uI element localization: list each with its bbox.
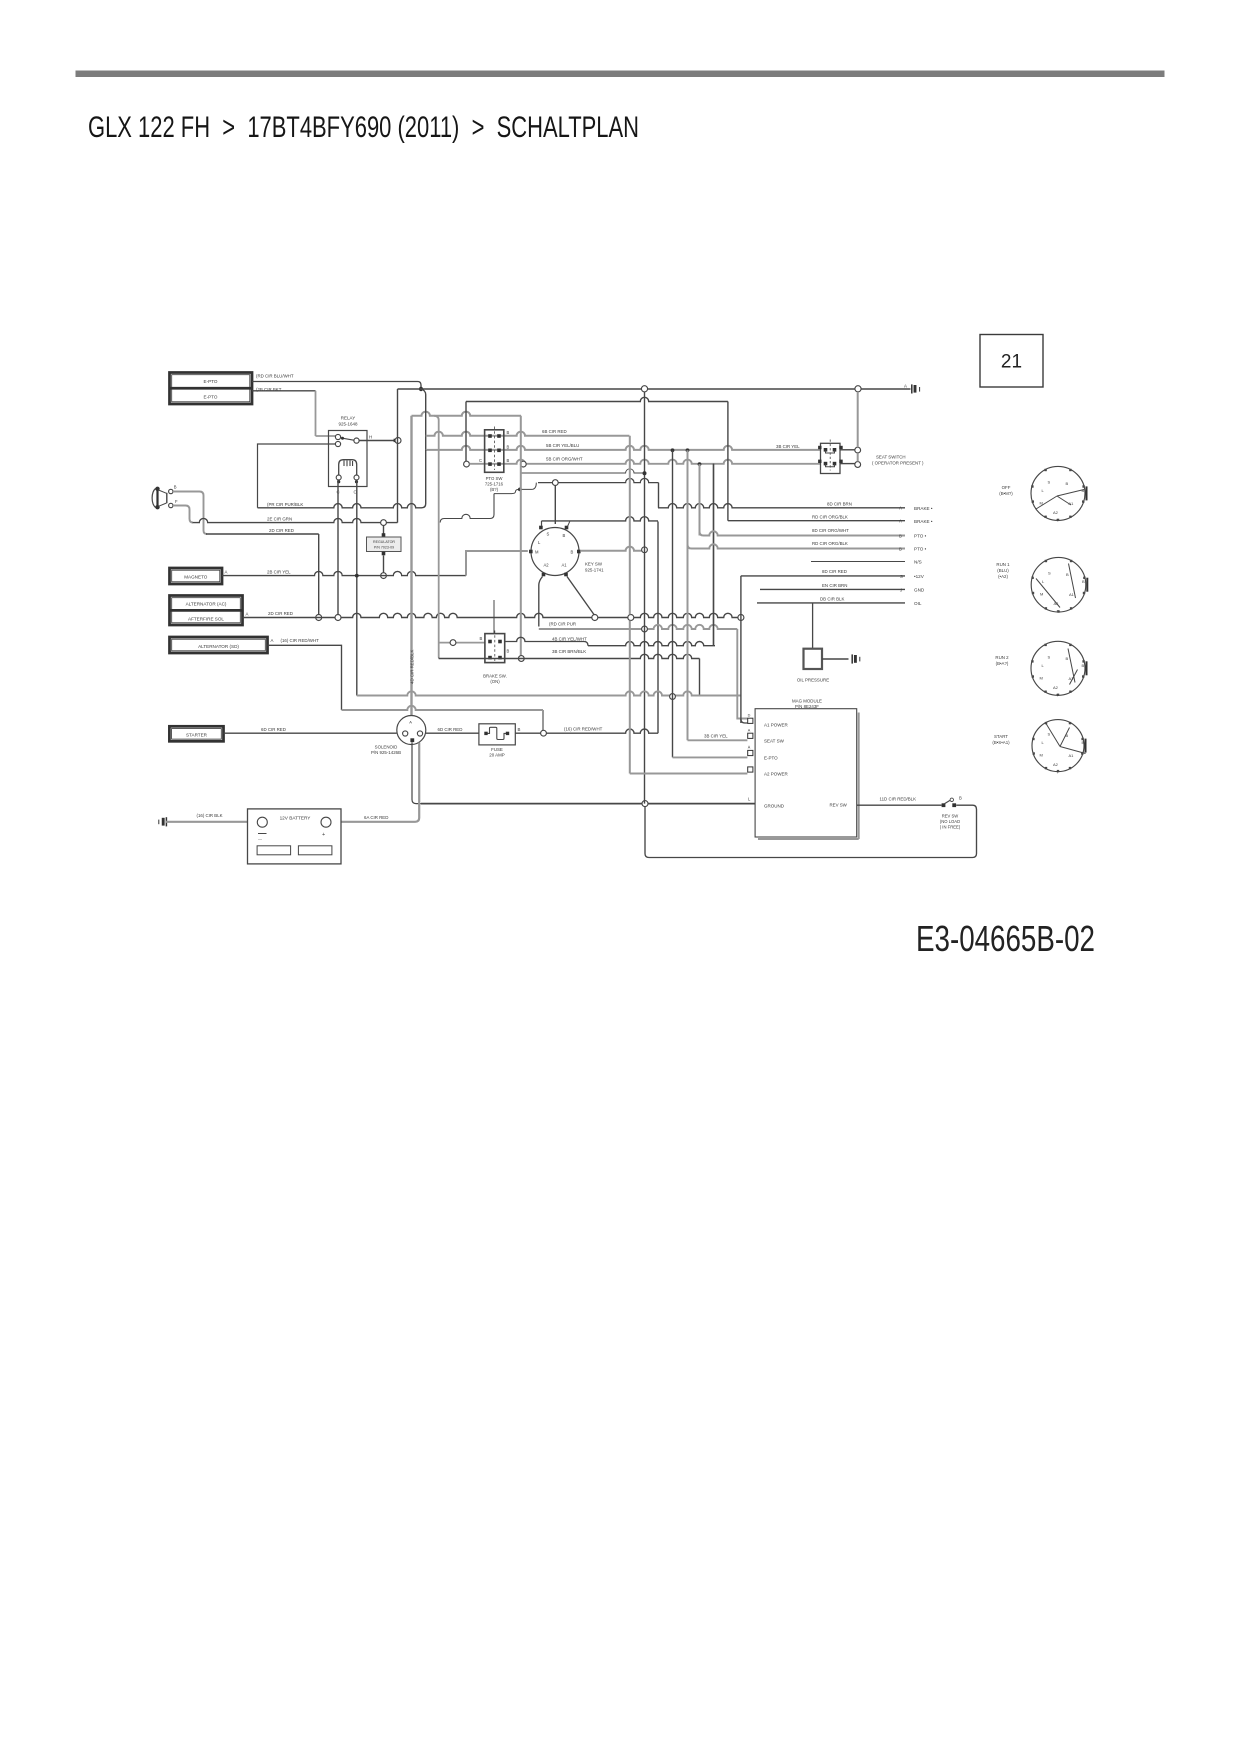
svg-text:RUN 2: RUN 2 — [995, 655, 1009, 660]
relay pin 30 circle — [335, 434, 340, 439]
svg-text:REGULATOR: REGULATOR — [373, 540, 395, 544]
svg-text:(RD CIR BLU/WHT: (RD CIR BLU/WHT — [256, 374, 294, 379]
wire relay coil feed gray — [316, 435, 337, 437]
svg-text:B: B — [959, 796, 962, 801]
svg-text:REV SW: REV SW — [830, 803, 848, 808]
svg-text:RD CIR ORG/BLK: RD CIR ORG/BLK — [812, 514, 848, 519]
junction dot seat/sw1 — [671, 448, 675, 452]
wire top bus y389 — [398, 388, 911, 390]
svg-text:6B CIR RED: 6B CIR RED — [542, 429, 567, 434]
seat switch box — [821, 443, 841, 473]
gauge RUN2 — [1031, 641, 1085, 695]
seat pins — [824, 448, 828, 452]
connector circle coil1/afterfire — [335, 615, 341, 621]
wire battery negative gray — [166, 821, 258, 823]
svg-text:(B?): (B?) — [490, 487, 499, 492]
connector circle key B 644.5 — [642, 547, 648, 553]
brake switch dashed line — [494, 631, 496, 662]
wire seat right top — [840, 449, 855, 451]
svg-text:M: M — [535, 550, 539, 555]
wire key L pin stub — [541, 521, 543, 526]
svg-text:AFTERFIRE SOL: AFTERFIRE SOL — [188, 617, 224, 622]
relay common circle — [354, 438, 359, 443]
wire gray v687.5 — [687, 450, 689, 740]
wire v672.5 — [672, 450, 674, 757]
wire start row left y507.8 — [258, 504, 422, 508]
svg-text:KEY SW: KEY SW — [585, 562, 603, 567]
svg-text:GROUND: GROUND — [764, 803, 785, 808]
key pin top-right — [565, 526, 569, 530]
svg-text:B: B — [563, 533, 566, 538]
regulator top pin — [382, 533, 386, 537]
svg-text:2D CIR RED: 2D CIR RED — [268, 611, 293, 616]
relay coil pin2 circle — [354, 475, 359, 480]
svg-text:P/N 925-1426B: P/N 925-1426B — [371, 750, 401, 755]
svg-text:4D CIR RED/BLK: 4D CIR RED/BLK — [410, 650, 415, 684]
seat switch dashed line — [829, 440, 831, 471]
connector circle regulator top — [381, 520, 387, 526]
gauge OFF — [1031, 466, 1085, 520]
connector circle regulator bottom — [381, 573, 387, 579]
svg-text:S: S — [900, 574, 903, 579]
svg-text:E-PTO: E-PTO — [204, 379, 218, 384]
svg-text:OFF: OFF — [1002, 485, 1011, 490]
svg-text:5B CIR YEL/BLU: 5B CIR YEL/BLU — [546, 443, 579, 448]
junction dot seat/sw2 — [686, 448, 690, 452]
svg-text:—: — — [258, 836, 262, 841]
regulator bottom wire — [383, 556, 385, 573]
svg-text:B: B — [507, 458, 510, 463]
horn pin F circle — [169, 503, 173, 507]
svg-text:OIL: OIL — [914, 601, 922, 606]
svg-text:(NO LOAD: (NO LOAD — [940, 819, 960, 824]
brake switch box — [485, 634, 505, 663]
wire module EPTO entry — [673, 756, 748, 758]
svg-text:A2: A2 — [1053, 510, 1059, 515]
relay output wire — [359, 440, 394, 442]
svg-text:P/N 7023-09: P/N 7023-09 — [374, 546, 394, 550]
module pin D — [748, 718, 753, 723]
wire key M gray — [466, 551, 528, 576]
svg-text:D: D — [748, 714, 751, 718]
wire v858 gray — [857, 392, 859, 447]
regulator bottom pin — [382, 552, 386, 556]
svg-text:B: B — [1082, 663, 1085, 668]
svg-text:J: J — [900, 587, 902, 592]
svg-text:EN CIR BRN: EN CIR BRN — [822, 583, 847, 588]
oil connector glyph — [851, 654, 853, 663]
wire E-PTO pin2 vertical gray — [315, 391, 317, 436]
connector A glyph — [911, 384, 913, 393]
junction circle 467/464.6 — [464, 461, 470, 467]
battery negative connector glyph — [165, 817, 167, 826]
junction dot 520/489.4 — [518, 488, 522, 492]
svg-text:A1: A1 — [1069, 753, 1075, 758]
wire horn B to red net — [173, 492, 207, 535]
svg-text:C: C — [479, 458, 482, 463]
relay output connector circle — [395, 438, 401, 444]
row2 wire — [728, 520, 905, 522]
svg-text:DB CIR BLK: DB CIR BLK — [820, 596, 844, 601]
svg-text:ALTERNATOR (SD): ALTERNATOR (SD) — [198, 644, 239, 649]
key switch circle — [531, 528, 579, 576]
svg-text:21: 21 — [1001, 352, 1022, 373]
connector circle at 644.5/389 — [641, 386, 647, 392]
svg-text:(ON): (ON) — [490, 679, 500, 684]
battery box — [248, 809, 342, 864]
solenoid right pin — [417, 731, 422, 736]
svg-text:BRAKE •: BRAKE • — [914, 506, 933, 511]
wire E-PTO pin2 BKT — [252, 390, 316, 392]
svg-text:(16) CIR RED/WHT: (16) CIR RED/WHT — [281, 638, 320, 643]
wire v740.9 — [740, 576, 742, 723]
wire key B gray — [581, 547, 642, 551]
component box STARTER — [169, 726, 223, 741]
connector circle 644.5/629 — [642, 626, 648, 632]
svg-text:GND: GND — [914, 588, 925, 593]
component box MAGNETO — [170, 568, 223, 584]
svg-text:Ä: Ä — [748, 746, 751, 750]
svg-text:PTO •: PTO • — [914, 547, 927, 552]
svg-text:3B CIR YEL: 3B CIR YEL — [704, 733, 728, 738]
rev switch pin 2 — [952, 803, 956, 807]
wire pto yel/blu gray y450.3 — [426, 446, 821, 450]
svg-text:OIL PRESSURE: OIL PRESSURE — [797, 678, 829, 683]
svg-text:E-PTO: E-PTO — [204, 395, 218, 400]
svg-text:+: + — [322, 832, 325, 838]
junction dot yel/relay-coil — [355, 574, 359, 578]
wire module A2 entry — [630, 773, 748, 775]
wire solenoid to fuse — [426, 732, 480, 734]
module box — [755, 709, 857, 837]
svg-text:A: A — [271, 638, 274, 643]
solenoid left pin — [403, 731, 408, 736]
row4 wire gray — [688, 545, 692, 549]
svg-text:A: A — [899, 506, 902, 511]
svg-text:MAGNETO: MAGNETO — [184, 575, 208, 580]
top horizontal rule — [76, 71, 1165, 78]
wire green y522.6 — [193, 518, 398, 522]
svg-text:RUN 1: RUN 1 — [996, 562, 1010, 567]
wire seat bottom vertical x715 — [713, 464, 715, 646]
svg-text:B: B — [174, 485, 177, 490]
PTO switch box — [485, 430, 504, 473]
rev switch blade — [944, 800, 951, 804]
svg-text:B: B — [571, 550, 574, 555]
connector box E-PTO (2 rows) — [170, 373, 253, 405]
key pin bottom-right — [564, 573, 568, 577]
key pin bottom-left — [542, 573, 546, 577]
battery cell rect 1 — [257, 846, 291, 855]
svg-text:B: B — [507, 649, 510, 654]
svg-text:6D CIR RED: 6D CIR RED — [261, 727, 286, 732]
wire horn red vertical x318.7 — [318, 534, 320, 615]
wire horn red y534 — [206, 533, 319, 535]
svg-text:B: B — [1066, 656, 1069, 661]
wire brake interlock jog — [494, 483, 536, 494]
component box ALTERNATOR (SD) — [170, 637, 268, 653]
svg-text:925-1648: 925-1648 — [338, 422, 358, 427]
wire brn/blk corner — [439, 658, 440, 659]
junction circle ground 645 — [642, 801, 648, 807]
junction circle key A1 diag — [592, 615, 598, 621]
connector circle 555/482.6 — [552, 480, 558, 486]
svg-text:B: B — [480, 636, 483, 641]
svg-text:GLX 122 FH > 17BT4BFY690 (20: GLX 122 FH > 17BT4BFY690 (2011) > SCHALT… — [88, 111, 639, 144]
svg-text:8D CIR BRN: 8D CIR BRN — [827, 502, 852, 507]
svg-text:A2: A2 — [544, 563, 550, 568]
svg-text:REV SW: REV SW — [942, 814, 959, 819]
svg-text:(BLU): (BLU) — [997, 568, 1009, 573]
relay coil hatches — [344, 461, 353, 467]
rev switch pin 1 — [942, 803, 946, 807]
wire relay85 loop — [258, 444, 337, 508]
connector circle 858/450.1 — [855, 447, 861, 453]
svg-text:A2 POWER: A2 POWER — [764, 771, 789, 776]
svg-text:(•A2): (•A2) — [998, 574, 1008, 579]
svg-text:BRAKE SW.: BRAKE SW. — [483, 674, 507, 679]
wire ground loop — [645, 805, 977, 857]
row3 wire gray — [700, 532, 704, 536]
battery pos terminal circle — [321, 817, 331, 827]
wire battery positive gray — [331, 743, 419, 822]
solenoid circle — [397, 716, 426, 745]
svg-text:A1 POWER: A1 POWER — [764, 723, 789, 728]
svg-text:(B•S•A1): (B•S•A1) — [992, 740, 1010, 745]
oil switch box — [804, 649, 823, 669]
svg-text:RD CIR ORG/BLK: RD CIR ORG/BLK — [812, 541, 848, 546]
wire brnblk down x699.5 — [699, 659, 701, 697]
wire v727.9 — [727, 402, 729, 521]
PTO pins row1 — [488, 434, 492, 438]
wire brake to seat y641.5 — [505, 637, 588, 645]
svg-text:8D CIR RED: 8D CIR RED — [822, 569, 847, 574]
wire brake row1 gray — [439, 642, 485, 644]
regulator feed top — [383, 526, 385, 535]
figure number box 21 — [980, 335, 1043, 388]
relay pin 85 circle — [335, 441, 340, 446]
svg-text:M: M — [1040, 675, 1043, 680]
PTO pins row2 — [488, 449, 492, 453]
svg-text:BRAKE •: BRAKE • — [914, 519, 933, 524]
svg-text:S: S — [547, 532, 550, 537]
wire brake row2 brn/blk — [439, 654, 700, 658]
svg-text:6D CIR RED: 6D CIR RED — [438, 727, 463, 732]
connector circle fuse net — [541, 730, 547, 736]
seat edge pins — [818, 446, 821, 449]
wire brake feed gray x438.7 — [434, 416, 439, 658]
svg-text:4B CIR YEL/WHT: 4B CIR YEL/WHT — [552, 636, 587, 641]
wire v466 — [465, 402, 467, 462]
seat contact arc bottom — [826, 464, 835, 467]
horn pin B circle — [169, 489, 173, 493]
svg-text:(RD CIR PUR: (RD CIR PUR — [549, 622, 576, 627]
wire v858b gray — [857, 453, 859, 461]
wire key L vertical x658 — [657, 522, 659, 734]
wire key S feed y482.6 — [538, 478, 659, 482]
wire bus x644.5 — [644, 392, 646, 804]
wire A2 module entry — [737, 629, 747, 719]
wire module A1 entry — [741, 719, 748, 723]
svg-text:S: S — [1048, 571, 1051, 576]
svg-text:PTO SW: PTO SW — [486, 476, 504, 481]
key pin right — [577, 550, 581, 554]
battery cell rect 2 — [298, 846, 332, 855]
svg-text:FUSE: FUSE — [491, 747, 503, 752]
svg-text:A: A — [899, 519, 902, 524]
svg-text:B: B — [1066, 481, 1069, 486]
wire pto red gray y435.8 — [426, 432, 630, 436]
svg-text:S: S — [1048, 654, 1051, 659]
fuse element — [484, 732, 487, 735]
wire start row right y507.8 — [658, 504, 905, 508]
row7 wire — [760, 588, 905, 590]
svg-text:SOLENOID: SOLENOID — [375, 745, 398, 750]
module pin E — [748, 750, 753, 755]
wire seat right bottom — [840, 463, 855, 465]
svg-text:MAG MODULE: MAG MODULE — [792, 699, 822, 704]
svg-text:11D CIR RED/BLK: 11D CIR RED/BLK — [880, 796, 917, 801]
row6 wire — [741, 575, 905, 577]
wire fuse net to key L corner — [546, 729, 658, 733]
wire v713.5 upper — [713, 464, 715, 646]
wire green vertical to relay — [397, 389, 399, 523]
svg-text:12V BATTERY: 12V BATTERY — [280, 815, 312, 820]
svg-text:N/S: N/S — [914, 560, 922, 565]
svg-text:M: M — [1040, 753, 1043, 758]
relay coil arch — [339, 460, 357, 475]
svg-text:A2: A2 — [1053, 685, 1059, 690]
fuse box — [479, 724, 515, 745]
wire relay coil2 down — [356, 480, 358, 696]
regulator box — [367, 537, 402, 552]
module box shadow — [758, 713, 859, 840]
svg-text:5B CIR ORG/WHT: 5B CIR ORG/WHT — [546, 457, 583, 462]
svg-text:B: B — [507, 430, 510, 435]
wire solenoid top gray — [410, 416, 412, 716]
svg-text:(B•M?): (B•M?) — [999, 491, 1013, 496]
battery neg mark — [258, 833, 267, 835]
svg-text:S: S — [1048, 479, 1051, 484]
key pin left — [529, 550, 533, 554]
wire module SEAT entry — [688, 739, 748, 741]
wire gray v629.8 — [629, 436, 631, 615]
connector circle 672.5/696.5 — [670, 694, 676, 700]
svg-text:A1: A1 — [1069, 592, 1075, 597]
svg-text:20 AMP: 20 AMP — [489, 753, 504, 758]
wire key A1 diagonal — [567, 577, 594, 616]
svg-text:SEAT SWITCH: SEAT SWITCH — [876, 455, 906, 460]
wire key S vertical — [554, 486, 556, 525]
connector circle at 858/389 — [855, 386, 861, 392]
svg-text:B: B — [899, 546, 902, 551]
svg-text:B: B — [507, 444, 510, 449]
wire solenoid bottom to ground — [412, 742, 421, 803]
solenoid bottom pin — [410, 738, 414, 742]
wire E-PTO pin1 BLU/WHT — [252, 382, 421, 388]
wire E-PTO1 vertical x425.7 — [421, 389, 426, 450]
svg-text:A: A — [225, 570, 228, 575]
wire top-left gray y415.8 — [412, 412, 522, 416]
wire gray x520.8 — [520, 416, 522, 656]
connector circle 523/464 — [520, 461, 526, 467]
svg-text:3B CIR BRN/BLK: 3B CIR BRN/BLK — [552, 649, 586, 654]
junction circle v741/617.5 — [738, 615, 744, 621]
wire pto org/wht y464 — [469, 460, 820, 464]
svg-text:2B CIR YEL: 2B CIR YEL — [267, 570, 291, 575]
svg-text:( IN FREE): ( IN FREE) — [940, 825, 961, 830]
svg-text:(16) CIR BLK: (16) CIR BLK — [197, 813, 223, 818]
svg-text:A: A — [904, 384, 907, 389]
svg-text:•12V: •12V — [914, 574, 925, 579]
wire relay coil1 down — [337, 480, 339, 618]
svg-text:A2: A2 — [1053, 762, 1059, 767]
relay box — [329, 431, 368, 487]
wire starter to solenoid — [224, 732, 397, 734]
svg-text:START: START — [994, 734, 1008, 739]
svg-text:E-PTO: E-PTO — [764, 755, 778, 760]
junction dot 699.5/464 — [698, 462, 702, 466]
wire horn F to green — [173, 506, 193, 523]
svg-text:925-1741: 925-1741 — [585, 568, 604, 573]
svg-text:H: H — [369, 435, 372, 440]
wire y473 link — [521, 469, 645, 473]
wire gray v629.8 lower — [629, 621, 631, 774]
seat contact arc top — [826, 451, 835, 454]
wire key L corner diag — [568, 521, 570, 526]
svg-text:(16) CIR RED/WHT: (16) CIR RED/WHT — [564, 727, 603, 732]
wire sol aux gray y695.5 — [357, 691, 741, 695]
wire start stub 658.5 — [658, 483, 660, 508]
wire afterfire y617.5 — [243, 613, 741, 617]
battery neg terminal circle — [257, 817, 267, 827]
svg-text:F: F — [175, 499, 178, 504]
relay coil pin dots — [337, 480, 340, 483]
wire key L y521.5 — [542, 517, 659, 521]
connector circle 318.7/617.5 — [316, 615, 322, 621]
svg-text:B: B — [1066, 572, 1069, 577]
svg-text:2D CIR RED: 2D CIR RED — [269, 528, 294, 533]
svg-text:M: M — [1040, 592, 1043, 597]
wire alt-sd to fuse net — [268, 645, 342, 710]
wire key A2 diagonal — [539, 577, 543, 627]
junction dot top net — [419, 387, 423, 391]
row8 wire — [757, 602, 905, 604]
svg-text:B: B — [899, 533, 902, 538]
junction dot 644.5/473 — [643, 471, 647, 475]
svg-text:A: A — [246, 612, 249, 617]
gauge START — [1032, 720, 1084, 772]
svg-text:725-1716: 725-1716 — [485, 482, 504, 487]
wire key A2 gray y629 — [539, 625, 738, 629]
wire ground bus y803.6 — [421, 803, 755, 805]
svg-text:ALTERNATOR (AC): ALTERNATOR (AC) — [186, 602, 227, 607]
svg-text:A: A — [409, 720, 412, 725]
connector circle 858/464.5 — [855, 462, 861, 468]
svg-text:( OPERATOR PRESENT ): ( OPERATOR PRESENT ) — [872, 461, 924, 466]
svg-text:6A CIR RED: 6A CIR RED — [364, 815, 388, 820]
svg-text:3B CIR YEL: 3B CIR YEL — [776, 444, 800, 449]
brake pins row2 — [488, 656, 492, 660]
wire module rev sw — [857, 804, 942, 806]
svg-text:SEAT SW: SEAT SW — [764, 738, 785, 743]
horn symbol — [152, 489, 155, 508]
svg-text:2E CIR GRN: 2E CIR GRN — [267, 517, 292, 522]
relay switch blade — [340, 438, 354, 440]
rev switch circle — [950, 798, 953, 801]
svg-text:STARTER: STARTER — [186, 733, 208, 738]
connector circle 521.5/658.5 — [518, 656, 524, 662]
